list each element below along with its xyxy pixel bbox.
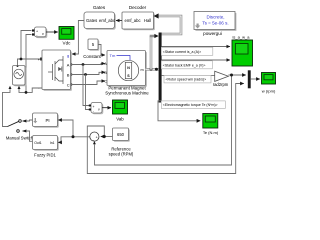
display w (rpm): [262, 73, 276, 94]
svg-text:Ts = 5e-06 s.: Ts = 5e-06 s.: [202, 20, 228, 25]
sum block: [90, 132, 99, 142]
node: phase B tap: [84, 73, 87, 76]
voltage measurement Vdc block: [32, 27, 47, 38]
svg-text:Gates: Gates: [86, 18, 97, 23]
svg-text:A: A: [67, 62, 70, 67]
label box: rotor speed: [164, 75, 211, 83]
wire: 650 to sum: [101, 136, 113, 138]
wire: Vdc measurement to Vdc scope: [46, 31, 58, 33]
scope Vdc: [59, 27, 74, 46]
igbt/diode icon: [48, 56, 63, 84]
wire: Hall bus from selector to decoder: [157, 16, 181, 34]
wire: decoder emf_abc to gates: [116, 20, 122, 22]
node: +rail / V+ junction: [20, 58, 23, 61]
wire: phase B down to Vab measurement: [86, 75, 90, 110]
wire: phase A down to Vab measurement: [83, 65, 90, 106]
svg-text:PI: PI: [46, 118, 50, 123]
svg-text:C: C: [104, 80, 107, 84]
svg-text:Vdc: Vdc: [63, 41, 72, 46]
svg-text:-: -: [93, 109, 94, 113]
bus selector: [159, 33, 162, 103]
gain rad2rpm: [213, 71, 229, 87]
constant 650 block: [113, 128, 130, 142]
wire: Vab measurement to scope: [102, 107, 111, 109]
node: -rail / V- junction: [25, 91, 28, 94]
svg-text:is_a_w_a: is_a_w_a: [233, 35, 251, 40]
constant 5 block: [88, 39, 99, 51]
node: bridge + port connection: [40, 58, 43, 61]
svg-text:+: +: [38, 58, 40, 62]
wire: + rail source to bridge: [18, 59, 43, 66]
svg-text:<Stator current is_a (A)>: <Stator current is_a (A)>: [163, 50, 201, 54]
scope Vab: [113, 100, 128, 122]
svg-text:Out1: Out1: [34, 141, 41, 145]
wire: phase C bridge to machine: [71, 81, 106, 85]
node: bridge port output marks: [71, 63, 74, 66]
node: arrow up into source minus: [18, 86, 21, 89]
svg-text:Te (N.m): Te (N.m): [203, 130, 219, 135]
svg-text:B: B: [67, 72, 70, 77]
wire: sum output to PI input: [58, 120, 90, 137]
svg-text:Fuzzy PID1: Fuzzy PID1: [34, 153, 56, 158]
wire: PI output to switch: [27, 120, 33, 121]
wire: phase A bridge to machine: [71, 64, 106, 65]
node: sum output junction: [72, 135, 75, 138]
universal bridge (inverter): [38, 50, 72, 91]
wire: bus branch into bus selector input: [151, 36, 156, 37]
svg-text:+: +: [93, 105, 95, 109]
svg-text:C: C: [67, 82, 70, 87]
svg-text:powergui: powergui: [203, 31, 222, 36]
scope Te: [203, 114, 219, 135]
svg-text:Hall: Hall: [144, 18, 151, 23]
svg-text:In1: In1: [50, 141, 55, 145]
decoder block: [122, 12, 155, 30]
powergui block: [194, 12, 236, 31]
svg-text:emf_abc: emf_abc: [125, 18, 141, 23]
svg-text:Gates: Gates: [93, 5, 106, 10]
svg-text:emf_abc: emf_abc: [99, 18, 115, 23]
wire: torque output: [158, 101, 200, 121]
label box: electromagnetic torque: [161, 101, 225, 109]
node: reference tap junction: [103, 135, 106, 138]
svg-text:Constant: Constant: [83, 54, 101, 59]
wire: rotor speed to gain: [162, 75, 215, 77]
wire: - rail source to bridge: [19, 85, 42, 92]
svg-text:v: v: [42, 32, 44, 36]
node: arrow up into source input: [9, 86, 12, 89]
node: arrow into decoder Hall: [154, 13, 159, 18]
permanent magnet synchronous machine: [104, 51, 146, 87]
wire: stator current to scope: [162, 46, 230, 48]
gates block: [84, 12, 116, 30]
scope is_a_w_a: [232, 40, 253, 66]
wire: sum output to fuzzy input: [58, 137, 73, 143]
wire: mux to display: [251, 78, 260, 80]
svg-text:Synchronous Machine: Synchronous Machine: [105, 91, 149, 96]
svg-text:<Rotor speed wm (rad/s)>: <Rotor speed wm (rad/s)>: [166, 78, 207, 82]
svg-text:+: +: [96, 135, 98, 139]
wire: switch output to controlled source input: [3, 89, 11, 126]
controlled voltage source: [13, 66, 27, 87]
mux: [248, 70, 251, 88]
svg-text:speed (RPM): speed (RPM): [109, 152, 134, 157]
PI block: [33, 113, 59, 128]
node: rad2rpm output junction: [230, 74, 233, 77]
svg-text:<Electromagnetic torque Te (N*: <Electromagnetic torque Te (N*m)>: [163, 103, 218, 107]
svg-text:Tm: Tm: [110, 53, 116, 58]
svg-text:Decoder: Decoder: [129, 5, 147, 10]
svg-text:650: 650: [117, 132, 125, 137]
wire: gates output down to bridge g: [72, 21, 84, 55]
label box: back EMF: [161, 61, 212, 69]
svg-text:N: N: [127, 66, 130, 70]
svg-text:w (rpm): w (rpm): [262, 89, 276, 94]
wire: back EMF to scope: [162, 59, 230, 61]
node: m junction: [150, 68, 153, 71]
voltage measurement Vab block: [89, 103, 104, 115]
wire: bus up from m junction: [150, 36, 153, 70]
manual switch: [8, 120, 27, 133]
svg-text:g: g: [67, 53, 69, 58]
wire: gain to mux: [228, 74, 245, 76]
svg-text:Discrete,: Discrete,: [206, 15, 224, 20]
wire: reference speed outer rail (650 tap to mux): [87, 84, 244, 174]
node: arrow up into sum: [93, 141, 96, 144]
svg-text:v: v: [98, 107, 100, 111]
wire: Fuzzy output to switch: [27, 131, 33, 141]
wire: V- tap to DC voltage measurement: [26, 35, 32, 93]
svg-text:m: m: [141, 68, 144, 72]
wire: constant to Tm: [98, 45, 105, 56]
fuzzy PID1 block: [33, 136, 59, 151]
wire: machine m bus to bus selector: [146, 68, 159, 71]
svg-text:rad2rpm: rad2rpm: [213, 82, 229, 87]
svg-text:<Stator back EMF e_a (V)>: <Stator back EMF e_a (V)>: [163, 63, 206, 67]
wire: feedback speed bottom rail (rad2rpm to sum): [95, 76, 232, 165]
svg-text:-: -: [93, 138, 94, 142]
wire: V+ tap to DC voltage measurement: [21, 31, 32, 60]
svg-text:Vab: Vab: [116, 117, 124, 122]
node: phase A tap: [82, 63, 85, 66]
wire: phase B bridge to machine: [71, 72, 106, 74]
label box: Stator current: [161, 47, 213, 55]
